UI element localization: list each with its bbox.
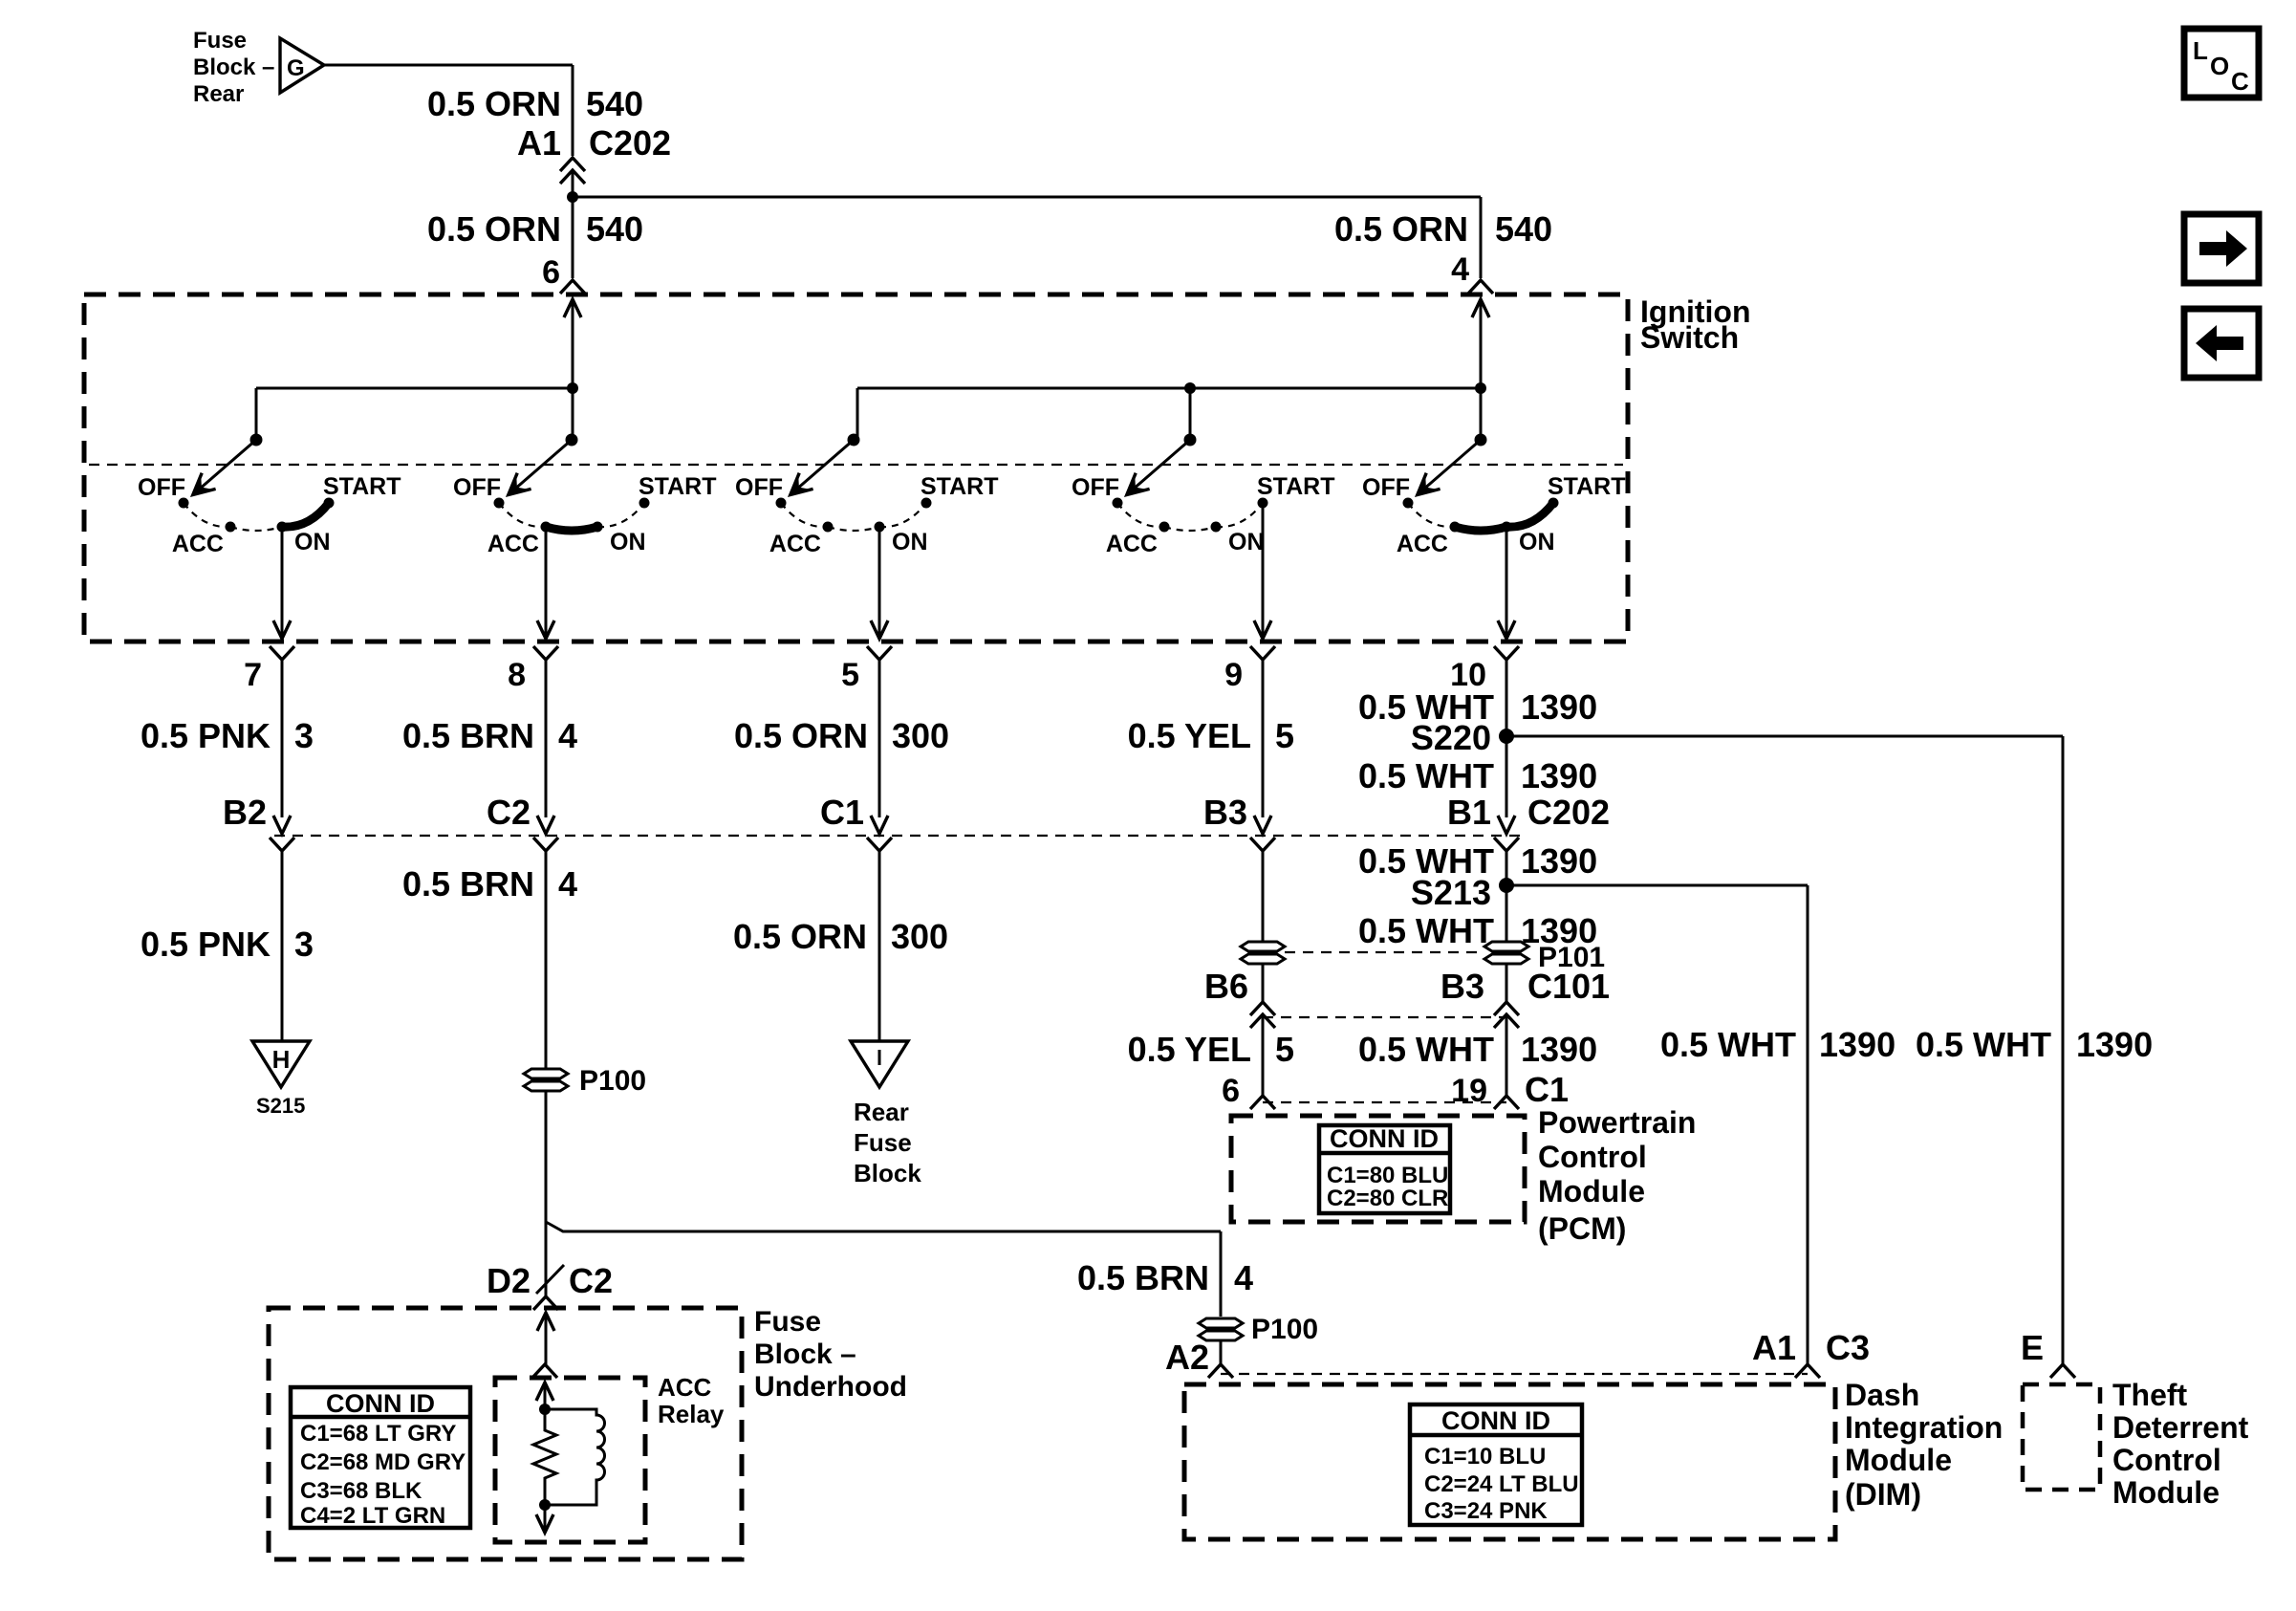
ignition switch wafer 3 pivot — [848, 434, 860, 446]
svg-text:E: E — [2021, 1328, 2044, 1367]
splice S213 — [1499, 878, 1514, 893]
svg-text:ON: ON — [610, 529, 646, 555]
svg-text:(DIM): (DIM) — [1845, 1477, 1921, 1512]
svg-text:0.5 WHT: 0.5 WHT — [1358, 1030, 1494, 1069]
wire to ACC relay — [545, 1313, 548, 1364]
svg-text:ACC: ACC — [1106, 531, 1158, 557]
svg-text:Module: Module — [1845, 1443, 1952, 1477]
svg-text:Fuse: Fuse — [754, 1306, 821, 1338]
svg-text:C202: C202 — [1527, 793, 1610, 832]
chevron at PCM pin 6 — [1250, 1096, 1275, 1109]
svg-text:Module: Module — [1538, 1174, 1645, 1208]
wafer 1 wiper arm — [197, 440, 256, 491]
svg-text:P100: P100 — [579, 1065, 646, 1097]
svg-text:1390: 1390 — [1521, 687, 1597, 727]
svg-text:Control: Control — [1538, 1140, 1647, 1174]
wafer 5 wiper arrowhead — [1418, 476, 1437, 494]
wire riser to wafer1 pivot — [255, 388, 258, 440]
chevron below ignition box output 1 — [270, 646, 294, 660]
wire riser to wafer5 pivot — [1480, 388, 1483, 440]
relay resistor — [533, 1409, 556, 1505]
wire left feed down toward ignition switch pin 6 — [572, 197, 574, 278]
chevron below C202 B1 — [1494, 838, 1519, 851]
svg-text:Theft: Theft — [2112, 1378, 2188, 1412]
wafer 5 wiper contact arc ACC-START (thick) — [1455, 503, 1553, 531]
power triangle G (Fuse Block - Rear) — [280, 38, 324, 93]
svg-text:CONN ID: CONN ID — [326, 1389, 435, 1418]
svg-text:START: START — [639, 473, 716, 500]
svg-text:4: 4 — [1234, 1258, 1253, 1297]
wafer 1 dashed arc OFF-ACC — [184, 503, 230, 527]
relay coil — [545, 1409, 605, 1505]
arrowhead at C202 C2 — [537, 816, 554, 834]
wafer 1 output wire — [281, 527, 284, 639]
wafer 3 output arrowhead at box edge — [871, 620, 888, 639]
arrowhead inside ignition switch pin 6 — [564, 299, 581, 317]
wafer 3 START contact — [921, 498, 932, 509]
wafer 2 output arrowhead at box edge — [537, 620, 554, 639]
svg-text:Dash: Dash — [1845, 1378, 1919, 1412]
wire 0.5 ORN 300 to C202 — [878, 660, 881, 817]
svg-text:ACC: ACC — [487, 531, 539, 557]
wafer 2 START contact — [639, 498, 650, 509]
svg-text:C3: C3 — [1826, 1328, 1870, 1367]
Dash Integration Module dashed box — [1184, 1384, 1835, 1539]
svg-text:C1=68 LT GRY: C1=68 LT GRY — [300, 1421, 456, 1447]
right arrow — [2199, 230, 2247, 267]
wafer 5 ACC contact — [1450, 522, 1461, 533]
svg-text:C2=68 MD GRY: C2=68 MD GRY — [300, 1449, 466, 1475]
wafer 3 wiper arm — [794, 440, 854, 491]
chevron above ACC relay — [532, 1364, 557, 1378]
wafer 1 wiper arrowhead — [193, 476, 212, 494]
svg-text:1390: 1390 — [2076, 1025, 2153, 1064]
svg-text:300: 300 — [891, 917, 948, 956]
svg-text:0.5 ORN: 0.5 ORN — [733, 917, 867, 956]
junction bus wafer4 — [1184, 382, 1196, 394]
svg-text:H: H — [272, 1045, 291, 1074]
wafer 2 dashed arc OFF-ACC — [499, 503, 546, 527]
svg-text:0.5 YEL: 0.5 YEL — [1128, 1030, 1251, 1069]
svg-text:B3: B3 — [1440, 967, 1484, 1006]
svg-text:CONN ID: CONN ID — [1330, 1124, 1439, 1153]
wire riser to wafer3 pivot — [856, 388, 859, 440]
chevron below C202 B2 — [270, 838, 294, 851]
splice S220 — [1499, 729, 1514, 744]
svg-text:Block –: Block – — [193, 54, 274, 80]
arrowhead at C202 B1 — [1498, 816, 1515, 834]
svg-text:B2: B2 — [223, 793, 267, 832]
svg-text:L: L — [2193, 36, 2208, 65]
svg-text:OFF: OFF — [735, 474, 783, 501]
wire from G triangle to corner — [324, 64, 573, 67]
svg-text:B3: B3 — [1203, 793, 1247, 832]
connector C202 dashed line — [274, 835, 1522, 837]
Powertrain Control Module dashed box — [1231, 1116, 1525, 1222]
svg-text:1390: 1390 — [1521, 756, 1597, 795]
svg-text:START: START — [921, 473, 998, 500]
svg-text:(PCM): (PCM) — [1538, 1211, 1626, 1246]
connector C101 chevron 2 left — [1250, 1014, 1275, 1028]
chevron below ignition box output 2 — [533, 646, 558, 660]
Theft Deterrent Control Module dashed box — [2023, 1384, 2100, 1490]
svg-text:0.5 WHT: 0.5 WHT — [1358, 756, 1494, 795]
wire down to connector C202 A1 — [572, 65, 574, 156]
ignition switch dashed box — [84, 294, 1628, 642]
power triangle H (S215) — [252, 1041, 310, 1087]
svg-text:O: O — [2210, 52, 2229, 80]
svg-text:1390: 1390 — [1521, 841, 1597, 881]
wafer 1 output arrowhead at box edge — [273, 620, 291, 639]
wire into relay — [544, 1382, 547, 1409]
svg-text:Block: Block — [854, 1159, 921, 1187]
svg-text:Deterrent: Deterrent — [2112, 1410, 2249, 1445]
wire S213 branch to DIM — [1506, 884, 1808, 887]
chevron below ignition box output 3 — [867, 646, 892, 660]
arrowhead at C202 B2 — [273, 816, 291, 834]
connector slash D2/C2 — [536, 1265, 564, 1294]
svg-text:Rear: Rear — [854, 1098, 909, 1126]
wafer 3 OFF contact — [776, 498, 787, 509]
wafer 3 output wire — [878, 527, 881, 639]
svg-text:C2=24 LT BLU: C2=24 LT BLU — [1424, 1471, 1579, 1497]
svg-text:540: 540 — [586, 209, 643, 249]
junction bus wafer5 — [1475, 382, 1486, 394]
svg-text:6: 6 — [542, 254, 560, 291]
chevron at fuse block underhood entry — [533, 1296, 558, 1310]
svg-text:S220: S220 — [1411, 718, 1491, 757]
svg-text:G: G — [287, 55, 305, 81]
svg-text:4: 4 — [558, 716, 577, 755]
PCM connector face dashed line — [1263, 1101, 1506, 1103]
svg-text:D2: D2 — [487, 1261, 531, 1300]
wafer 4 wiper arm — [1131, 440, 1190, 491]
ignition switch wafer 1 pivot — [250, 434, 263, 446]
svg-text:C101: C101 — [1527, 967, 1610, 1006]
chevron below C202 B3 — [1250, 838, 1275, 851]
wafer 4 output arrowhead at box edge — [1254, 620, 1271, 639]
connector C101 chevron 1 left — [1250, 1002, 1275, 1015]
wafer 3 dashed arc ACC-ON — [828, 527, 879, 531]
wire right feed down toward ignition switch pin 4 — [1480, 197, 1483, 278]
wire pin6 down to internal bus — [572, 299, 574, 388]
svg-text:Integration: Integration — [1845, 1410, 2003, 1445]
wire below C202 to junction — [572, 172, 574, 197]
svg-text:300: 300 — [892, 716, 949, 755]
wire 0.5 PNK 3 to C202 — [281, 660, 284, 817]
wafer 4 dashed arc OFF-ACC — [1117, 503, 1164, 527]
svg-text:C2: C2 — [569, 1261, 613, 1300]
underhood CONN ID table — [291, 1387, 470, 1528]
wire horizontal branch to right feed — [573, 196, 1481, 199]
wafer 2 wiper arrowhead — [509, 476, 528, 494]
wafer 2 wiper arm — [512, 440, 572, 491]
svg-text:A1: A1 — [517, 123, 561, 163]
right arrow box — [2184, 214, 2259, 283]
svg-text:B6: B6 — [1204, 967, 1248, 1006]
svg-text:3: 3 — [294, 716, 314, 755]
junction bus left — [567, 382, 578, 394]
chevron below ignition box output 5 — [1494, 646, 1519, 660]
svg-text:C4=2 LT GRN: C4=2 LT GRN — [300, 1503, 445, 1529]
svg-text:0.5 ORN: 0.5 ORN — [427, 84, 561, 123]
svg-text:OFF: OFF — [1362, 474, 1410, 501]
svg-text:5: 5 — [1275, 716, 1294, 755]
wafer 4 OFF contact — [1113, 498, 1123, 509]
svg-text:540: 540 — [586, 84, 643, 123]
svg-text:0.5 WHT: 0.5 WHT — [1358, 911, 1494, 950]
arrowhead at C202 B3 — [1254, 816, 1271, 834]
svg-text:0.5 YEL: 0.5 YEL — [1128, 716, 1251, 755]
wafer 5 OFF contact — [1403, 498, 1414, 509]
svg-text:C1=10 BLU: C1=10 BLU — [1424, 1444, 1546, 1469]
svg-text:8: 8 — [508, 657, 526, 693]
wafer 2 output wire — [545, 527, 548, 639]
wafer 1 OFF contact — [179, 498, 189, 509]
svg-text:ACC: ACC — [172, 531, 224, 557]
LOC box — [2184, 29, 2259, 98]
wire riser to wafer2 pivot — [572, 388, 574, 440]
DIM connector face dashed line — [1221, 1373, 1808, 1375]
svg-text:0.5 BRN: 0.5 BRN — [1077, 1258, 1209, 1297]
svg-text:OFF: OFF — [138, 474, 185, 501]
wire 0.5 WHT 1390 down to theft deterrent E — [2062, 736, 2065, 1364]
svg-text:S215: S215 — [256, 1094, 305, 1118]
svg-text:Block –: Block – — [754, 1339, 856, 1370]
grommet P100 — [524, 1069, 568, 1091]
svg-text:1390: 1390 — [1819, 1025, 1895, 1064]
chevron at DIM A1 — [1795, 1364, 1820, 1378]
wafer 5 START contact — [1549, 498, 1559, 509]
svg-text:C202: C202 — [589, 123, 671, 163]
wafer 3 dashed arc ON-START — [879, 503, 926, 527]
wire 0.5 WHT to P101 right — [1505, 851, 1508, 942]
wafer 2 ON contact — [593, 522, 603, 533]
chevron at PCM pin 19 — [1494, 1096, 1519, 1109]
wafer 4 wiper arrowhead — [1127, 476, 1146, 494]
wire internal bus segment right — [857, 387, 1481, 390]
svg-text:P100: P100 — [1251, 1314, 1318, 1345]
svg-text:START: START — [1257, 473, 1334, 500]
wafer 3 dashed arc OFF-ACC — [781, 503, 828, 527]
wafer 3 wiper arrowhead — [791, 476, 810, 494]
wire out of relay — [544, 1505, 547, 1533]
wire 0.5 WHT 1390 down to DIM A1 — [1807, 885, 1809, 1364]
wafer 5 ON contact — [1502, 522, 1512, 533]
wafer 1 ACC contact — [226, 522, 236, 533]
wafer 5 output arrowhead at box edge — [1498, 620, 1515, 639]
svg-text:9: 9 — [1224, 657, 1243, 693]
svg-text:0.5 PNK: 0.5 PNK — [141, 925, 271, 964]
svg-text:CONN ID: CONN ID — [1441, 1406, 1550, 1435]
svg-text:C2=80 CLR: C2=80 CLR — [1327, 1186, 1448, 1211]
wire 0.5 BRN 4 through P100 — [545, 851, 548, 1222]
svg-text:START: START — [323, 473, 401, 500]
svg-text:C1: C1 — [1525, 1070, 1569, 1109]
ignition switch wafer 5 pivot — [1475, 434, 1487, 446]
DIM CONN ID table — [1410, 1404, 1582, 1525]
svg-text:7: 7 — [244, 657, 262, 693]
wire riser to wafer4 pivot — [1189, 388, 1192, 440]
wafer 5 wiper arm — [1421, 440, 1481, 491]
wire pin4 down to internal bus — [1480, 299, 1483, 388]
svg-text:Fuse: Fuse — [193, 28, 247, 54]
svg-text:START: START — [1548, 473, 1625, 500]
svg-text:4: 4 — [558, 864, 577, 903]
arrowhead inside ignition switch pin 4 — [1472, 299, 1489, 317]
wafer 4 output wire — [1262, 503, 1265, 639]
svg-text:ON: ON — [892, 529, 928, 555]
svg-text:0.5 WHT: 0.5 WHT — [1660, 1025, 1796, 1064]
wafer 3 ON contact — [875, 522, 885, 533]
left arrow — [2196, 325, 2243, 361]
letter I in triangle — [878, 1050, 881, 1065]
svg-text:ACC: ACC — [769, 531, 821, 557]
chevron below C202 C1 — [867, 838, 892, 851]
svg-text:C3=24 PNK: C3=24 PNK — [1424, 1498, 1548, 1524]
svg-text:1390: 1390 — [1521, 1030, 1597, 1069]
svg-text:ON: ON — [294, 529, 331, 555]
svg-text:5: 5 — [841, 657, 859, 693]
wire branch elbow to A2 run — [546, 1222, 1221, 1231]
in-line connector C202 chevron 2 — [560, 170, 585, 184]
arrowhead inside ACC relay — [536, 1382, 553, 1401]
wafer 2 wiper contact arc ACC-ON (thick) — [546, 527, 597, 531]
wire 0.5 YEL to PCM — [1262, 1016, 1265, 1096]
wafer 5 output wire — [1505, 527, 1508, 639]
wafer 1 ON contact — [277, 522, 288, 533]
wire 0.5 BRN continues to D2 — [545, 1222, 548, 1295]
svg-text:ON: ON — [1228, 529, 1265, 555]
svg-text:C: C — [2231, 67, 2249, 96]
wire 0.5 WHT to PCM — [1505, 1016, 1508, 1096]
svg-text:Relay: Relay — [658, 1400, 725, 1428]
ACC Relay dashed box — [495, 1378, 645, 1542]
relay bottom junction — [539, 1499, 551, 1511]
wafer 1 dashed arc ACC-ON — [230, 527, 282, 531]
wire 0.5 BRN down to P100 second — [1220, 1231, 1223, 1317]
svg-text:0.5 ORN: 0.5 ORN — [427, 209, 561, 249]
svg-text:Powertrain: Powertrain — [1538, 1105, 1696, 1140]
connector C101 chevron 1 right — [1494, 1002, 1519, 1015]
svg-text:Control: Control — [2112, 1443, 2221, 1477]
svg-text:S213: S213 — [1411, 873, 1491, 912]
dashed line between P101 grommets — [1285, 951, 1484, 953]
junction node splice of orange feed — [567, 191, 578, 203]
svg-text:5: 5 — [1275, 1030, 1294, 1069]
wafer 4 dashed arc ACC-ON — [1164, 527, 1216, 531]
Fuse Block - Underhood dashed box — [269, 1308, 742, 1559]
svg-text:A1: A1 — [1752, 1328, 1796, 1367]
svg-text:19: 19 — [1451, 1073, 1487, 1109]
svg-text:0.5 ORN: 0.5 ORN — [734, 716, 868, 755]
internal dashed line of ignition switch — [89, 464, 1623, 466]
svg-text:3: 3 — [294, 925, 314, 964]
svg-text:Fuse: Fuse — [854, 1128, 912, 1157]
svg-text:0.5 BRN: 0.5 BRN — [402, 716, 534, 755]
wire 0.5 BRN 4 to C202 — [545, 660, 548, 817]
power triangle I (Rear Fuse Block) — [851, 1041, 908, 1087]
wire 0.5 WHT 1390 to C202 — [1505, 660, 1508, 817]
wire 0.5 YEL 5 to P101 — [1262, 851, 1265, 942]
chevron below C202 C2 — [533, 838, 558, 851]
grommet P101 left — [1241, 942, 1285, 964]
wafer 2 OFF contact — [494, 498, 505, 509]
svg-text:Rear: Rear — [193, 81, 244, 107]
wafer 4 START contact — [1258, 498, 1268, 509]
svg-text:0.5 BRN: 0.5 BRN — [402, 864, 534, 903]
chevron at ignition switch pin 6 — [560, 280, 585, 294]
svg-text:C1=80 BLU: C1=80 BLU — [1327, 1163, 1448, 1188]
arrowhead at C202 C1 — [871, 816, 888, 834]
left arrow box — [2184, 309, 2259, 378]
wafer 4 ACC contact — [1159, 522, 1170, 533]
wafer 2 dashed arc ON-START — [597, 503, 644, 527]
svg-text:ACC: ACC — [658, 1373, 712, 1402]
svg-text:6: 6 — [1222, 1073, 1240, 1109]
in-line connector C202 chevron 1 — [560, 158, 585, 171]
wafer 4 dashed arc ON-START — [1216, 503, 1263, 527]
wire 0.5 PNK 3 to S215 — [281, 851, 284, 1041]
wire 0.5 ORN 300 to rear fuse block — [878, 851, 881, 1041]
chevron below ignition box output 4 — [1250, 646, 1275, 660]
PCM CONN ID table — [1319, 1125, 1450, 1213]
svg-text:C3=68 BLK: C3=68 BLK — [300, 1478, 422, 1504]
wire internal bus segment left — [256, 387, 573, 390]
wire below P101 right — [1505, 963, 1508, 1002]
grommet P101 right — [1484, 942, 1528, 964]
arrowhead at relay bottom — [536, 1514, 553, 1533]
wire to DIM A2 — [1220, 1340, 1223, 1364]
connector C101 dashed line — [1263, 1016, 1506, 1018]
svg-text:A2: A2 — [1165, 1338, 1209, 1377]
svg-text:0.5 PNK: 0.5 PNK — [141, 716, 271, 755]
chevron at ignition switch pin 4 — [1468, 280, 1493, 294]
svg-text:540: 540 — [1495, 209, 1552, 249]
wire S220 branch to theft deterrent — [1506, 735, 2063, 738]
svg-text:C1: C1 — [820, 793, 864, 832]
connector C101 chevron 2 right — [1494, 1014, 1519, 1028]
wire below P101 left — [1262, 963, 1265, 1002]
grommet P100 second — [1199, 1318, 1243, 1340]
wafer 5 dashed arc OFF-ACC — [1408, 503, 1455, 527]
relay top junction — [539, 1404, 551, 1415]
svg-text:0.5 WHT: 0.5 WHT — [1916, 1025, 2051, 1064]
svg-text:ACC: ACC — [1397, 531, 1448, 557]
svg-text:ON: ON — [1519, 529, 1555, 555]
svg-text:Switch: Switch — [1640, 320, 1739, 355]
svg-text:OFF: OFF — [1072, 474, 1119, 501]
svg-text:4: 4 — [1451, 251, 1469, 288]
svg-text:B1: B1 — [1447, 793, 1491, 832]
svg-text:0.5 ORN: 0.5 ORN — [1334, 209, 1468, 249]
wire 0.5 YEL 5 to C202 — [1262, 660, 1265, 817]
wafer 4 ON contact — [1211, 522, 1222, 533]
ignition switch wafer 4 pivot — [1184, 434, 1197, 446]
wafer 1 wiper contact arc ON-START (thick) — [282, 503, 329, 527]
svg-text:Module: Module — [2112, 1475, 2220, 1510]
wafer 2 ACC contact — [541, 522, 552, 533]
ignition switch wafer 2 pivot — [566, 434, 578, 446]
chevron at DIM A2 — [1208, 1364, 1233, 1378]
chevron at theft E — [2050, 1364, 2075, 1378]
svg-text:C2: C2 — [487, 793, 531, 832]
svg-text:Underhood: Underhood — [754, 1371, 907, 1403]
arrowhead inside fuse block underhood — [537, 1313, 554, 1331]
wafer 1 START contact — [324, 498, 335, 509]
svg-text:OFF: OFF — [453, 474, 501, 501]
wafer 3 ACC contact — [823, 522, 834, 533]
